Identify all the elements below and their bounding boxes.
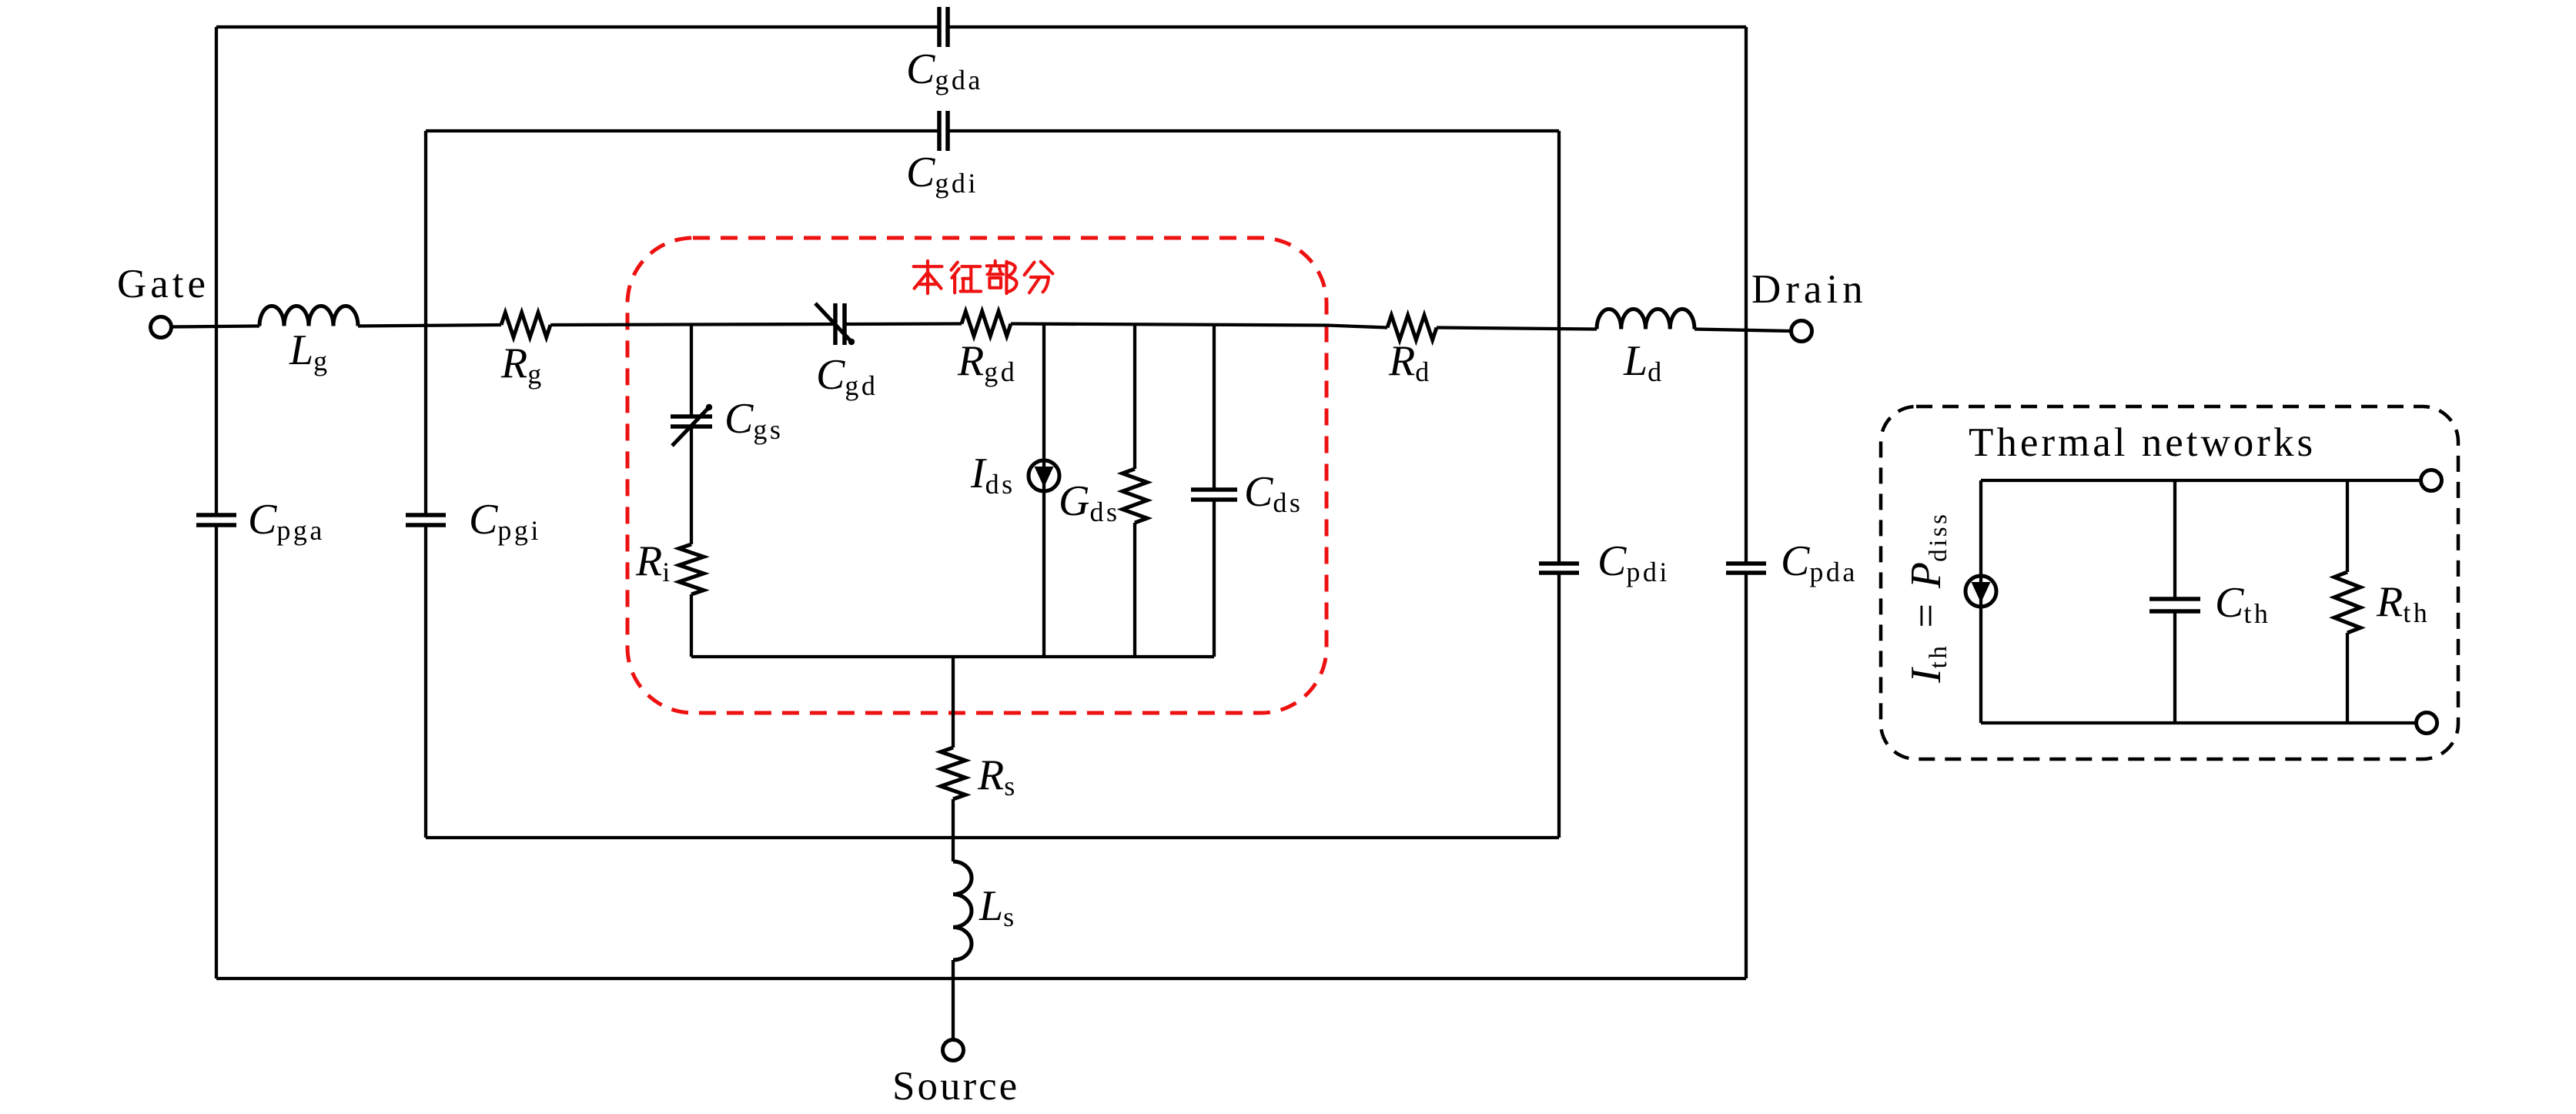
svg-text:Gate: Gate: [117, 262, 209, 306]
svg-text:Thermal networks: Thermal networks: [1969, 420, 2316, 465]
svg-text:Drain: Drain: [1751, 267, 1868, 312]
svg-text:Source: Source: [892, 1064, 1019, 1109]
